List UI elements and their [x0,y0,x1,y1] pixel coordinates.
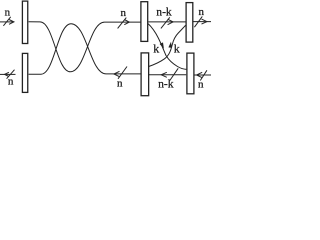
arrow A10 up along K2 [168,42,172,48]
block left-bottom [22,53,27,92]
wire K2 k-up curve [148,25,185,66]
bus slash S3 [118,18,127,29]
wire twist bottom curve [29,24,141,75]
wire bottom-left output [0,73,16,75]
bus slash S2 [7,70,15,79]
arrow A3 right [124,20,129,25]
wire n-k top [148,21,185,23]
bus slash S7 [194,16,202,27]
svg-text:n-k: n-k [158,78,174,91]
bus slash S1 [3,17,10,26]
arrow A7 right [202,19,207,24]
svg-text:n: n [5,7,11,19]
wire twist top curve [29,22,141,72]
wire K1 k-down curve [148,24,186,70]
arrow A9 down along K1 [160,42,164,48]
bus slash S6 [170,68,178,80]
wire top-left input [0,21,14,23]
svg-text:n: n [121,7,127,19]
block right-bottom [187,53,194,94]
svg-text:n: n [198,6,204,18]
arrow A4 left [114,71,120,76]
arrow A1 right [9,20,14,25]
block right-top [186,3,193,43]
bus slash S5 [161,17,170,28]
wire top-right output [193,21,211,23]
arrow A6 left [161,72,167,77]
svg-text:n: n [198,78,204,90]
block left-top [22,1,27,43]
arrow A8 left [197,72,203,77]
svg-text:k: k [174,41,180,55]
block mid-bottom [141,53,149,96]
svg-text:k: k [153,41,159,55]
arrow A5 right [168,19,174,25]
wire bottom-right [194,74,211,76]
svg-text:n-k: n-k [156,6,172,19]
arrow A2 left [5,72,9,76]
bus slash S8 [200,70,207,80]
block mid-top [141,2,148,42]
wire n-k bottom [149,74,187,76]
bus slash S4 [118,67,127,79]
svg-text:n: n [117,78,123,90]
svg-text:n: n [8,75,14,87]
